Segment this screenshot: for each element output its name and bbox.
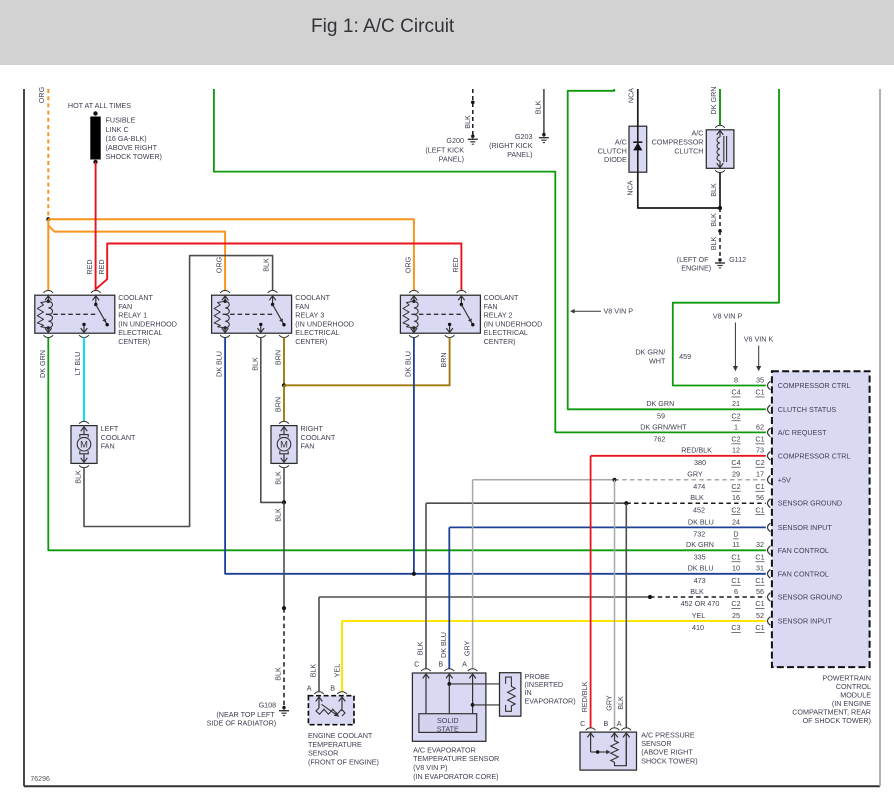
wire DK GRN/WHT A/C request [214, 89, 766, 432]
svg-text:CENTER): CENTER) [118, 337, 150, 346]
label RED right [97, 259, 106, 274]
svg-text:BLK: BLK [709, 213, 718, 227]
svg-text:ORG: ORG [37, 86, 46, 103]
wire BRN node to relay2 [284, 338, 450, 386]
svg-text:C1: C1 [755, 552, 764, 561]
svg-text:Fig 1: A/C Circuit: Fig 1: A/C Circuit [311, 16, 455, 37]
svg-text:YEL: YEL [333, 664, 342, 678]
figure number 76296 [30, 776, 50, 783]
svg-text:(V8 VIN P): (V8 VIN P) [413, 763, 447, 772]
svg-text:DK GRN: DK GRN [38, 350, 47, 378]
wire ORG to relay1 [47, 219, 49, 290]
connector arcs ect [314, 692, 347, 694]
svg-text:SENSOR GROUND: SENSOR GROUND [778, 499, 842, 508]
svg-text:BLK: BLK [416, 641, 425, 655]
module U1 powertrain control module box [772, 371, 870, 667]
svg-text:C1: C1 [731, 576, 740, 585]
pin numbers row 9 [731, 564, 764, 585]
label PCM COMPRESSOR CTRL row 4 [778, 451, 851, 460]
connector arc left fan bottom [79, 465, 89, 467]
label circuit row 8 [694, 552, 706, 561]
svg-text:DIODE: DIODE [604, 155, 627, 164]
svg-text:21: 21 [732, 399, 740, 408]
arrow V8 VIN P [733, 323, 738, 372]
wire BLK dashed segment 2 [719, 231, 721, 257]
pin bracket row 7 [768, 523, 771, 532]
svg-text:1: 1 [734, 422, 738, 431]
svg-text:DK BLU: DK BLU [403, 351, 412, 377]
svg-text:32: 32 [756, 540, 764, 549]
connector arcs relay1 top [44, 291, 101, 293]
label G108 [207, 701, 277, 728]
svg-text:RELAY 3: RELAY 3 [295, 311, 324, 320]
svg-text:A: A [617, 719, 622, 728]
svg-text:RED: RED [97, 259, 106, 274]
wire BLK ect A [318, 597, 320, 692]
pin numbers row 6 [731, 493, 764, 514]
pin numbers row 11 [731, 611, 764, 632]
svg-text:C3: C3 [731, 623, 740, 632]
label circuit row 7 [693, 530, 705, 539]
svg-text:C2: C2 [731, 505, 740, 514]
wire GRY evap A 5v [472, 480, 474, 669]
pin bracket row 8 [768, 546, 771, 555]
svg-text:24: 24 [732, 517, 740, 526]
label pressure pins C B A [580, 719, 622, 728]
label circuit row 5 [693, 482, 705, 491]
pin bracket row 6 [768, 499, 771, 508]
solenoid L1 A/C compressor clutch [706, 130, 734, 169]
label relay K2 coolant fan relay 2 [484, 293, 543, 346]
label RED relay2 [451, 257, 460, 272]
label circuit row 11 [692, 623, 704, 632]
svg-text:C2: C2 [731, 435, 740, 444]
wire RED from fusible link to relay1 [95, 162, 97, 291]
label BRN upper [274, 350, 283, 365]
label wire row 11 [692, 611, 706, 620]
svg-text:FAN: FAN [301, 442, 315, 451]
svg-text:BLK: BLK [73, 470, 82, 484]
svg-text:ORG: ORG [215, 256, 224, 273]
svg-text:C2: C2 [755, 458, 764, 467]
svg-text:TEMPERATURE: TEMPERATURE [308, 740, 362, 749]
label ORG top [37, 86, 46, 103]
svg-text:+5V: +5V [778, 475, 791, 484]
svg-text:COMPRESSOR CTRL: COMPRESSOR CTRL [778, 451, 851, 460]
svg-text:DK GRN: DK GRN [686, 540, 714, 549]
svg-text:C4: C4 [731, 458, 740, 467]
svg-text:474: 474 [693, 482, 705, 491]
node right fan ground junction [282, 500, 286, 504]
svg-text:D: D [733, 530, 738, 539]
svg-text:6: 6 [734, 587, 738, 596]
label G112 [677, 255, 746, 272]
svg-text:410: 410 [692, 623, 704, 632]
svg-text:YEL: YEL [692, 611, 706, 620]
label BLK left fan [73, 470, 82, 484]
label BLK relay3 [262, 258, 271, 272]
connector arc right fan top [279, 421, 289, 423]
svg-text:BRN: BRN [274, 397, 283, 412]
svg-text:COOLANT: COOLANT [484, 293, 519, 302]
pin numbers row 4 [731, 446, 764, 467]
connector arc left fan top [79, 421, 89, 423]
motor M2 right coolant fan [271, 426, 297, 464]
pin bracket row 11 [768, 617, 771, 626]
svg-text:V6 VIN K: V6 VIN K [744, 335, 774, 344]
svg-text:G203: G203 [515, 132, 533, 141]
svg-text:11: 11 [732, 540, 739, 549]
label BRN lower [274, 397, 283, 412]
svg-text:BLK: BLK [709, 183, 718, 197]
svg-text:BLK: BLK [463, 115, 472, 129]
svg-text:(IN EVAPORATOR CORE): (IN EVAPORATOR CORE) [413, 772, 498, 781]
svg-text:452 OR 470: 452 OR 470 [681, 599, 720, 608]
label wire row 2 [646, 399, 674, 408]
pin numbers row 8 [731, 540, 764, 561]
svg-text:B: B [604, 719, 609, 728]
svg-text:TEMPERATURE SENSOR: TEMPERATURE SENSOR [413, 754, 499, 763]
svg-text:BLK: BLK [533, 101, 542, 115]
svg-text:(IN UNDERHOOD: (IN UNDERHOOD [484, 319, 543, 328]
node on G200 wire [471, 101, 475, 105]
node clutch ground junction 2 [718, 229, 722, 233]
pin numbers row 7 [732, 517, 740, 538]
svg-text:35: 35 [756, 375, 764, 384]
label GRY evap [463, 640, 472, 656]
wire ORG horizontal to relay2 [48, 219, 414, 290]
svg-text:ENGINE): ENGINE) [681, 263, 711, 272]
svg-text:76296: 76296 [30, 776, 50, 783]
label DK BLU relay3 [215, 351, 224, 377]
label A/C pressure sensor [641, 731, 697, 766]
label PCM SENSOR INPUT row 7 [778, 523, 833, 532]
svg-text:BRN: BRN [274, 350, 283, 365]
svg-text:RED: RED [85, 259, 94, 274]
relay K3 coolant fan relay 3 [212, 295, 292, 333]
svg-text:M: M [280, 440, 288, 450]
svg-text:GRY: GRY [463, 640, 472, 656]
svg-text:C: C [414, 660, 419, 669]
svg-text:(LEFT KICK: (LEFT KICK [425, 145, 464, 154]
svg-text:17: 17 [756, 470, 764, 479]
svg-text:G200: G200 [446, 136, 464, 145]
label RED/BLK pressure [580, 681, 589, 712]
label PCM CLUTCH STATUS row 2 [778, 405, 837, 414]
svg-text:RED/BLK: RED/BLK [580, 681, 589, 712]
label BLK clutch 2 [709, 213, 718, 227]
svg-text:BLK: BLK [273, 667, 282, 681]
label HOT AT ALL TIMES [68, 101, 131, 110]
wire DK GRN compressor ctrl [673, 89, 779, 386]
svg-text:SHOCK TOWER): SHOCK TOWER) [641, 756, 697, 765]
label PCM SENSOR GROUND row 6 [778, 499, 842, 508]
node junction row 10 [648, 595, 652, 599]
label PCM FAN CONTROL row 8 [778, 546, 829, 555]
svg-text:C1: C1 [755, 623, 764, 632]
wire DK BLU evap B sensor input [448, 527, 450, 668]
label DK BLU evap [439, 632, 448, 658]
label V8 VIN P arrow left [570, 307, 633, 316]
node DK BLU fan control junction [412, 572, 416, 576]
pin bracket row 5 [768, 476, 771, 485]
svg-text:C1: C1 [731, 552, 740, 561]
svg-text:C2: C2 [731, 599, 740, 608]
label wire row 9 [688, 564, 714, 573]
svg-text:380: 380 [694, 458, 706, 467]
svg-text:GRY: GRY [604, 695, 613, 711]
svg-text:C1: C1 [755, 435, 764, 444]
wire GRY pressure B [614, 480, 616, 728]
label relay K3 coolant fan relay 3 [295, 293, 354, 346]
svg-text:C1: C1 [755, 599, 764, 608]
svg-text:LT BLU: LT BLU [73, 352, 82, 376]
wire BLK clutch to node [719, 173, 721, 208]
svg-text:COOLANT: COOLANT [118, 293, 153, 302]
label BLK relay3 middle [250, 357, 259, 371]
svg-text:56: 56 [756, 587, 764, 596]
wire NCA diode top [637, 89, 639, 126]
svg-text:(ABOVE RIGHT: (ABOVE RIGHT [106, 143, 158, 152]
svg-text:V8 VIN P: V8 VIN P [604, 307, 634, 316]
label circuit row 10 [681, 599, 720, 608]
label ORG relay3 [215, 256, 224, 273]
wire PCM row 11 [342, 620, 766, 622]
label PCM FAN CONTROL row 9 [778, 569, 829, 578]
svg-text:SHOCK TOWER): SHOCK TOWER) [106, 152, 162, 161]
node BLK dashed transition [282, 606, 286, 610]
pin bracket row 1 [768, 381, 771, 390]
thermistor RT1 engine coolant temperature sensor [308, 696, 354, 725]
label YEL ect [333, 664, 342, 678]
label DK GRN clutch [709, 87, 718, 115]
svg-text:LINK C: LINK C [106, 125, 129, 134]
svg-text:SENSOR INPUT: SENSOR INPUT [778, 523, 833, 532]
svg-text:BRN: BRN [439, 352, 448, 367]
label PCM SENSOR INPUT row 11 [778, 617, 833, 626]
svg-text:56: 56 [756, 493, 764, 502]
connector arc right fan bottom [279, 465, 289, 467]
wire PCM row 4 [591, 455, 766, 457]
title bar [0, 0, 894, 65]
label ORG relay2 [404, 256, 413, 273]
svg-text:73: 73 [756, 446, 764, 455]
wire ORG dashed battery feed [47, 89, 49, 219]
label A/C compressor clutch [652, 129, 704, 156]
ground G200 [468, 135, 478, 145]
resistor R probe [500, 673, 521, 717]
svg-text:LEFT: LEFT [101, 424, 119, 433]
svg-text:SIDE OF RADIATOR): SIDE OF RADIATOR) [207, 718, 277, 727]
label BLK G203 [533, 101, 542, 115]
label wire row 4 [681, 446, 712, 455]
relay K2 coolant fan relay 2 [400, 295, 480, 333]
svg-text:V8 VIN P: V8 VIN P [713, 312, 743, 321]
svg-text:25: 25 [732, 611, 740, 620]
ground G112 [715, 258, 725, 268]
sensor B1 A/C pressure sensor [580, 732, 637, 770]
svg-text:COOLANT: COOLANT [301, 433, 336, 442]
svg-text:473: 473 [694, 576, 706, 585]
label BLK G108 [273, 667, 282, 681]
sensor A/C evaporator temperature sensor [412, 673, 504, 741]
label DK GRN relay1 [38, 350, 47, 378]
svg-text:335: 335 [694, 552, 706, 561]
node junction row 5 [612, 478, 616, 482]
label BLK ect [309, 664, 318, 678]
wire BLK pressure A [625, 503, 627, 728]
label V6 VIN K [744, 335, 774, 344]
label left coolant fan [101, 424, 136, 451]
label wire row 7 [688, 517, 714, 526]
label probe [525, 672, 576, 705]
svg-text:BLK: BLK [616, 696, 625, 710]
svg-text:31: 31 [756, 564, 764, 573]
pin numbers row 2 [731, 399, 740, 420]
svg-text:CENTER): CENTER) [484, 337, 516, 346]
svg-text:C4: C4 [731, 388, 740, 397]
pin numbers row 1 [731, 375, 764, 396]
svg-text:C2: C2 [731, 411, 740, 420]
wire PCM row 5 [473, 479, 766, 481]
svg-text:ELECTRICAL: ELECTRICAL [484, 328, 528, 337]
label wire row 6 [690, 493, 704, 502]
arrow V6 VIN K [756, 346, 761, 372]
label G203 [489, 132, 533, 159]
svg-text:DK GRN: DK GRN [646, 399, 674, 408]
svg-text:C: C [580, 719, 585, 728]
svg-text:PANEL): PANEL) [507, 150, 532, 159]
svg-text:SENSOR: SENSOR [308, 749, 338, 758]
wire BLK relay3 middle to right fan node [261, 338, 284, 503]
svg-text:WHT: WHT [649, 356, 666, 365]
svg-text:BLK: BLK [690, 493, 704, 502]
wire ORG branch to relay3 [48, 225, 225, 290]
svg-text:C1: C1 [755, 482, 764, 491]
svg-text:FAN: FAN [118, 302, 132, 311]
svg-text:DK BLU: DK BLU [215, 351, 224, 377]
svg-text:62: 62 [756, 422, 764, 431]
wire PCM row 2 [0, 0, 1, 1]
svg-text:CLUTCH STATUS: CLUTCH STATUS [778, 405, 837, 414]
motor M1 left coolant fan [71, 426, 97, 464]
svg-text:A/C: A/C [692, 129, 704, 138]
svg-text:B: B [438, 660, 443, 669]
svg-text:G112: G112 [729, 255, 746, 264]
pin numbers row 5 [731, 470, 764, 491]
connector arcs relay3 top [220, 290, 277, 292]
wire PCM row 8 [0, 0, 1, 1]
svg-text:PANEL): PANEL) [439, 155, 464, 164]
svg-text:BLK: BLK [262, 258, 271, 272]
wire PCM row 9 [0, 0, 1, 1]
svg-text:452: 452 [693, 505, 705, 514]
connector arcs relay2 top [409, 290, 466, 292]
svg-text:B: B [330, 684, 335, 693]
svg-text:ORG: ORG [404, 256, 413, 273]
svg-text:(IN UNDERHOOD: (IN UNDERHOOD [118, 319, 177, 328]
label BLK right fan [274, 471, 283, 485]
label wire row 8 [686, 540, 714, 549]
pin bracket row 9 [768, 570, 771, 579]
svg-text:C1: C1 [755, 576, 764, 585]
wire PCM row 7 [449, 526, 766, 528]
label PCM COMPRESSOR CTRL row 1 [778, 381, 851, 390]
svg-text:C1: C1 [755, 505, 764, 514]
svg-text:C1: C1 [755, 388, 764, 397]
svg-text:ELECTRICAL: ELECTRICAL [295, 328, 339, 337]
svg-text:59: 59 [657, 411, 665, 420]
label PCM SENSOR GROUND row 10 [778, 593, 842, 602]
wire DK GRN to compressor clutch [719, 89, 721, 125]
connector arc clutch bottom [715, 170, 725, 172]
relay K1 coolant fan relay 1 [35, 295, 115, 333]
label fusible link [106, 116, 162, 161]
node junction row 6 [624, 501, 628, 505]
label engine coolant temp sensor [308, 731, 379, 767]
svg-text:BLK: BLK [274, 508, 283, 522]
wire YEL ect B [341, 621, 343, 692]
svg-text:DK BLU: DK BLU [688, 564, 714, 573]
svg-text:A/C EVAPORATOR: A/C EVAPORATOR [413, 745, 476, 754]
wire BLK evap C to sensor ground row [425, 503, 427, 669]
svg-text:COOLANT: COOLANT [101, 433, 136, 442]
label circuit row 4 [694, 458, 706, 467]
label GRY pressure [604, 695, 613, 711]
label BRN relay2 [439, 352, 448, 367]
label wire row 10 [690, 587, 704, 596]
svg-text:STATE: STATE [437, 725, 459, 734]
svg-text:16: 16 [732, 493, 740, 502]
svg-text:NCA: NCA [626, 180, 635, 195]
wire PCM row 10 [319, 596, 766, 598]
svg-text:A: A [462, 660, 467, 669]
wire DK BLU relay3 to PCM fan control [225, 338, 766, 574]
pin bracket row 3 [768, 428, 771, 437]
svg-text:DK GRN/WHT: DK GRN/WHT [640, 422, 687, 431]
svg-text:FAN CONTROL: FAN CONTROL [778, 569, 829, 578]
wire diode to clutch node [638, 172, 720, 208]
connector arcs pressure [586, 728, 631, 730]
wire BLK left fan loop to relay3 [84, 256, 273, 527]
svg-text:NCA: NCA [627, 88, 636, 103]
svg-text:SENSOR INPUT: SENSOR INPUT [778, 617, 833, 626]
svg-text:ENGINE COOLANT: ENGINE COOLANT [308, 731, 373, 740]
wire RED branch to relay2 [96, 244, 462, 291]
svg-text:FUSIBLE: FUSIBLE [106, 116, 136, 125]
label A/C clutch diode [598, 138, 627, 165]
svg-text:BLK: BLK [690, 587, 704, 596]
wire BLK dashed segment 1 [719, 208, 721, 231]
svg-text:BLK: BLK [709, 237, 718, 251]
svg-text:ELECTRICAL: ELECTRICAL [118, 328, 162, 337]
svg-text:BLK: BLK [250, 357, 259, 371]
svg-text:CLUTCH: CLUTCH [674, 146, 703, 155]
svg-text:RED/BLK: RED/BLK [681, 446, 712, 455]
wire BLK dashed to G200 [472, 89, 474, 136]
svg-text:G108: G108 [259, 701, 277, 710]
svg-text:M: M [80, 440, 88, 450]
connector arcs relay1 bottom [44, 335, 89, 337]
connector arcs relay3 bottom [220, 335, 288, 337]
svg-text:DK BLU: DK BLU [688, 517, 714, 526]
svg-text:762: 762 [653, 435, 665, 444]
wire BLK to G203 [543, 89, 545, 134]
svg-text:BLK: BLK [309, 664, 318, 678]
wire BLK right fan to node [283, 468, 285, 503]
svg-text:DK GRN: DK GRN [709, 87, 718, 115]
label evaporator temp sensor [413, 745, 499, 780]
